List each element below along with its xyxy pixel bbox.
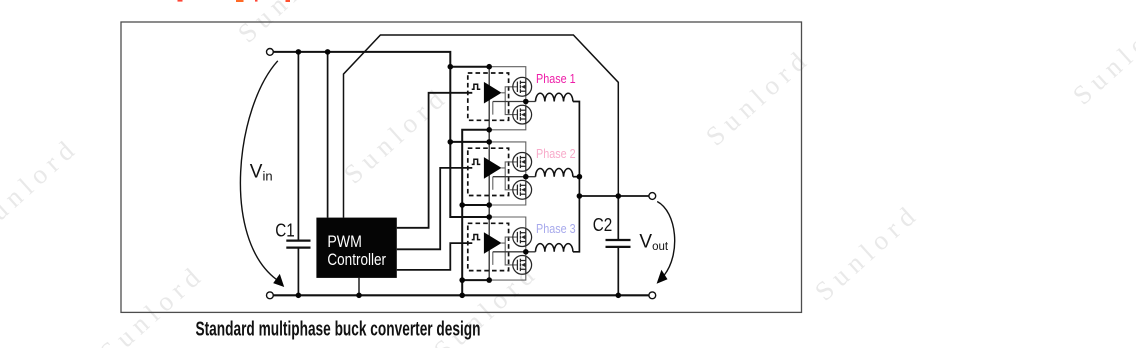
wire: gate lines from driver to FETs, phase 1 <box>493 87 518 115</box>
junction: mid bus / phase 1 return <box>486 127 492 133</box>
amplifier triangle of phase 2 driver <box>484 157 502 179</box>
wire: gate lines from driver to FETs, phase 2 <box>493 162 518 190</box>
node: input - terminal <box>267 292 274 299</box>
transistor Q4: phase 2 low-side MOSFET <box>513 180 532 199</box>
wire: bottom ground rail <box>273 294 649 296</box>
junction: PWM ground on bottom rail <box>356 293 362 299</box>
wire: output bus middle segment <box>578 177 580 196</box>
border frame of figure <box>121 22 802 312</box>
junction: ground bus / phase 3 return <box>459 277 465 283</box>
wire: phase 2 return thin continuation from FET source <box>489 198 526 205</box>
transistor Q2: phase 1 low-side MOSFET <box>513 105 532 124</box>
node: output - terminal <box>649 292 656 299</box>
junction: mid bus / phase 2 feed <box>486 139 492 145</box>
junction: C2 on bottom rail <box>616 293 622 299</box>
wire: switch-node to inductor, phase 1 <box>493 101 536 103</box>
pulse symbol inside phase 1 driver <box>472 84 481 89</box>
junction: mid bus / phase 2 return <box>486 202 492 208</box>
inductor L3: phase 3 output coil <box>536 244 573 252</box>
inductor L1: phase 1 output coil <box>536 93 573 101</box>
junction: feedback tap on Vout line <box>616 193 622 199</box>
svg-text:PWM: PWM <box>327 232 362 251</box>
svg-text:C2: C2 <box>593 215 613 235</box>
gate driver U2: phase 1 dashed driver box <box>468 73 509 120</box>
wire: C2 branch lower to ground rail <box>617 248 619 296</box>
op-amp / IC U1: PWM controller box <box>316 218 396 278</box>
amplifier triangle of phase 1 driver <box>484 82 502 104</box>
red text remnant specks (cropped text) <box>178 0 291 2</box>
junction: L2 output on output bus <box>577 174 583 180</box>
junction: phase 1 switch node <box>523 99 529 105</box>
wire: PWM drive output to phase 2 driver <box>397 168 473 249</box>
Vin arrowhead <box>273 274 284 287</box>
wire: Vin distribution bus <box>450 67 489 217</box>
junction: ground bus / phase 2 return <box>459 202 465 208</box>
transistor Q5: phase 3 high-side MOSFET <box>513 228 532 247</box>
junction: mid bus / phase 3 feed <box>486 214 492 220</box>
junction: output bus / Vout line <box>577 193 583 199</box>
wire: PWM ground stub <box>358 278 360 295</box>
junction: PWM supply tap on top rail <box>325 49 331 55</box>
wire: top input rail <box>273 52 450 67</box>
wire: C2 branch upper <box>617 196 619 240</box>
wire: PWM drive output to phase 1 driver <box>397 93 473 228</box>
gate driver U3: phase 2 dashed driver box <box>468 148 509 195</box>
wire: phase 1 feed thin continuation to FET drain <box>489 67 526 79</box>
svg-text:Phase 1: Phase 1 <box>536 72 576 86</box>
junction: phase 2 switch node <box>523 174 529 180</box>
svg-text:C1: C1 <box>275 220 295 240</box>
junction: mid bus / phase 1 feed <box>486 64 492 70</box>
capacitor C1 <box>286 241 310 248</box>
junction: Vin bus / phase 2 feed <box>448 139 454 145</box>
junction: C1 tap on top rail <box>296 49 302 55</box>
svg-text:Controller: Controller <box>327 250 386 269</box>
wire: thin vertical between FETs, phase 1 <box>525 95 527 106</box>
node: output + terminal <box>649 193 656 200</box>
pulse symbol inside phase 2 driver <box>472 159 481 164</box>
wire: phase 1 high-side feed <box>450 66 489 68</box>
wire: phase 3 low-side source return <box>462 279 489 281</box>
wire: output line to Vout terminal <box>579 195 649 197</box>
junction: Vin bus / phase 1 feed <box>448 64 454 70</box>
transistor Q3: phase 2 high-side MOSFET <box>513 153 532 172</box>
wire: phase 2 high-side feed <box>450 141 489 143</box>
wire: phase 3 return thin continuation from FET source <box>489 273 526 280</box>
wire: PWM Vin supply from top rail <box>327 52 329 218</box>
wire: thin vertical between FETs, phase 3 <box>525 245 527 256</box>
svg-text:Phase 3: Phase 3 <box>536 222 576 236</box>
capacitor C2 <box>606 240 631 247</box>
gate driver U4: phase 3 dashed driver box <box>468 223 509 270</box>
wire: phase 2 low-side source return <box>462 204 489 206</box>
svg-text:Phase 2: Phase 2 <box>536 147 576 161</box>
Vout arrow arc <box>657 202 674 276</box>
junction: phase 3 switch node <box>523 249 529 255</box>
wire: L2 output to output bus <box>573 176 580 178</box>
junction: mid bus / phase 3 return <box>486 277 492 283</box>
junction: ground bus on bottom rail <box>459 293 465 299</box>
wire: ground return bus <box>462 130 489 295</box>
wire: PWM drive output to phase 3 driver <box>397 243 473 270</box>
wire: phase 3 feed thin continuation to FET drain <box>489 217 526 229</box>
wire: phase 2 feed thin continuation to FET drain <box>489 142 526 154</box>
wire: L3 output up to output bus <box>573 196 580 252</box>
transistor Q6: phase 3 low-side MOSFET <box>513 256 532 275</box>
pulse symbol inside phase 3 driver <box>472 235 481 240</box>
wire: switch-node to inductor, phase 2 <box>493 176 536 178</box>
junction: C1 on bottom rail <box>296 293 302 299</box>
wire: C1 branch from top rail <box>297 52 299 240</box>
transistor Q1: phase 1 high-side MOSFET <box>513 77 532 96</box>
wire: switch-node to inductor, phase 3 <box>493 251 536 253</box>
wire: C1 branch to bottom rail <box>297 248 299 296</box>
wire: thin vertical between FETs, phase 2 <box>525 170 527 182</box>
amplifier triangle of phase 3 driver <box>484 232 502 254</box>
wire: gate lines from driver to FETs, phase 3 <box>493 237 518 265</box>
svg-text:Standard multiphase buck conve: Standard multiphase buck converter desig… <box>196 318 481 341</box>
inductor L2: phase 2 output coil <box>536 168 573 176</box>
wire: feedback from Vout to PWM controller (routed over top) <box>344 35 619 218</box>
Vin arrow arc <box>240 61 277 280</box>
Vout arrowhead <box>657 270 668 284</box>
wire: phase 3 high-side feed <box>450 216 489 218</box>
wire: L1 output to output bus <box>573 102 580 177</box>
wire: phase 1 return thin continuation from FET source <box>489 123 526 130</box>
wire: mid distribution bus (thin) <box>488 67 490 280</box>
node: input + terminal <box>267 49 274 56</box>
